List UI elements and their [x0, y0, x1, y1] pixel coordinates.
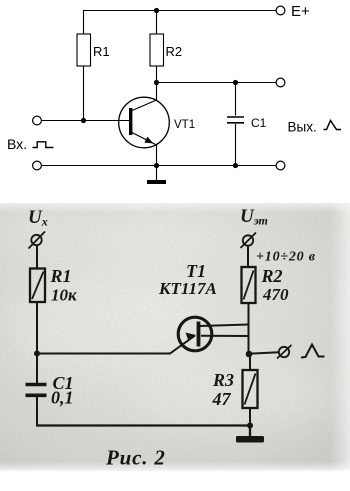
- svg-text:R2: R2: [166, 44, 183, 59]
- ground (scan): [236, 426, 264, 443]
- label input Vx: [7, 136, 54, 152]
- wire R1 top: [83, 11, 85, 35]
- node junction C1 top: [233, 80, 238, 85]
- terminal E+: [276, 3, 310, 20]
- wire C1 bottom: [235, 124, 237, 166]
- node junction emitter rail: [154, 163, 159, 168]
- wire bottom rail: [42, 165, 277, 167]
- wire node A to C1: [36, 354, 38, 384]
- label pulse symbol: [301, 345, 325, 358]
- svg-text:R1: R1: [93, 44, 110, 59]
- wire R2 bottom / collector: [156, 66, 158, 100]
- svg-text:VT1: VT1: [174, 119, 195, 131]
- terminal output (scan): [277, 345, 292, 359]
- svg-text:10к: 10к: [51, 286, 77, 305]
- svg-text:470: 470: [262, 285, 289, 304]
- wire R1 to node A: [36, 302, 38, 354]
- node A junction: [34, 351, 40, 357]
- node junction base R1: [81, 118, 86, 123]
- terminal bottom left: [33, 161, 42, 170]
- wire base line input: [42, 120, 130, 122]
- wire Uet to R2: [247, 246, 249, 268]
- svg-text:Вых.: Вых.: [288, 120, 317, 135]
- terminal Ux: [29, 232, 46, 249]
- node rail junction: [247, 423, 253, 429]
- wire R3 to rail: [249, 408, 251, 426]
- wire R1 bottom to base node: [83, 66, 85, 121]
- svg-text:E+: E+: [291, 3, 310, 20]
- wire bottom rail: [36, 424, 250, 426]
- resistor R3 (scan): [212, 370, 258, 409]
- capacitor C1: [227, 116, 267, 130]
- svg-text:R3: R3: [212, 370, 234, 390]
- terminal Uet: [241, 233, 257, 249]
- wire collector output line: [157, 82, 277, 84]
- svg-text:КТ117А: КТ117А: [158, 279, 217, 298]
- terminal bottom right: [276, 161, 285, 170]
- resistor R2 (scan): [242, 266, 290, 304]
- terminal input: [33, 116, 42, 125]
- wire R2 to B2 node: [248, 303, 250, 355]
- transistor VT1: [119, 97, 195, 148]
- svg-text:Вх.: Вх.: [7, 136, 27, 152]
- svg-text:0,1: 0,1: [51, 388, 74, 408]
- wire base2 lead: [200, 325, 249, 327]
- svg-text:Т1: Т1: [186, 261, 206, 281]
- wire C1 bottom to rail: [36, 397, 38, 426]
- wire top rail E+: [83, 10, 276, 12]
- transistor T1 KT117A: [158, 261, 217, 351]
- node junction collector line: [154, 80, 159, 85]
- label Ux: [28, 207, 48, 229]
- svg-text:47: 47: [212, 389, 232, 409]
- label Uet: [240, 206, 268, 228]
- svg-text:Рис. 2: Рис. 2: [105, 446, 166, 470]
- capacitor C1 (scan): [26, 373, 74, 408]
- resistor R2: [150, 34, 182, 66]
- label output Vyx: [288, 120, 342, 135]
- wire B1 to R3: [249, 354, 251, 371]
- node junction C1 bottom: [233, 163, 238, 168]
- ground: [147, 166, 166, 185]
- wire node A to emitter: [37, 336, 195, 354]
- terminal output top: [276, 78, 285, 87]
- svg-text:C1: C1: [251, 116, 267, 130]
- wire R2 top: [156, 11, 158, 35]
- resistor R1 (scan): [30, 266, 77, 305]
- node junction top rail R2: [154, 8, 159, 13]
- wire emitter down: [156, 145, 158, 166]
- wire C1 top: [235, 83, 237, 116]
- svg-text:R1: R1: [50, 266, 72, 286]
- wire base1 lead: [201, 335, 249, 337]
- wire Ux to R1: [36, 246, 38, 270]
- wire output: [249, 352, 279, 353]
- svg-text:+10÷20 в: +10÷20 в: [256, 250, 316, 265]
- resistor R1: [77, 34, 110, 66]
- svg-text:R2: R2: [261, 266, 283, 286]
- node B1 junction: [246, 351, 253, 358]
